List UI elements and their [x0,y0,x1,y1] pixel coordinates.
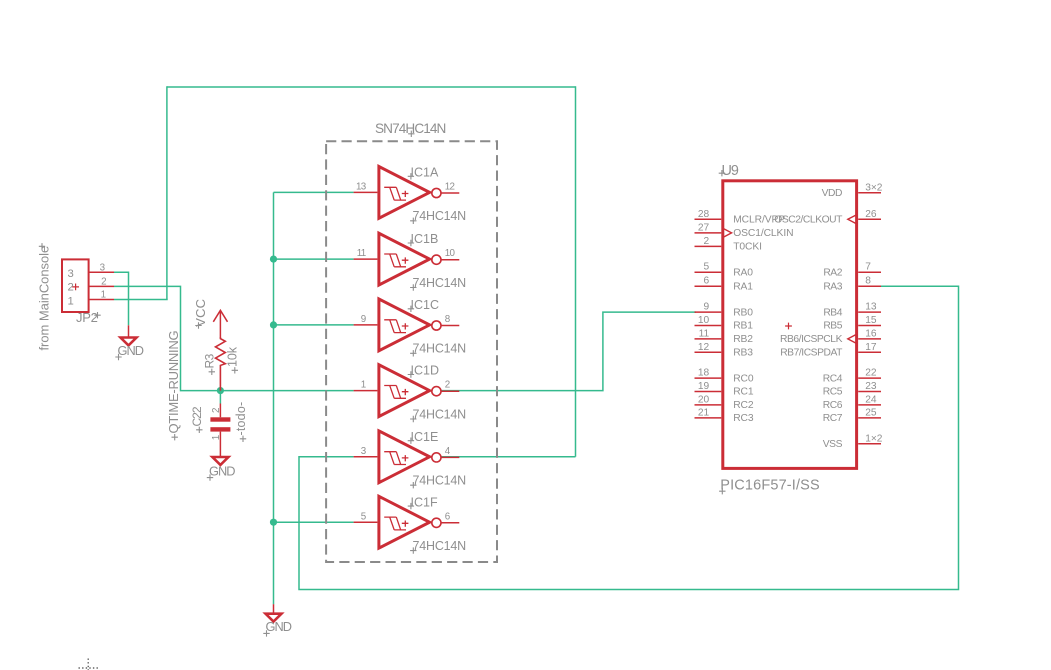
clock mark OSC1/CLKIN [723,228,732,237]
svg-text:VDD: VDD [822,188,842,199]
clock mark OSC2/CLKOUT [848,215,857,224]
op-amp (schmitt inverter) IC1B [354,233,460,285]
svg-text:RC3: RC3 [733,413,754,424]
wire IC1E input from U9 RA3 [299,286,959,589]
svg-text:RC5: RC5 [823,387,843,398]
svg-text:22: 22 [865,368,877,379]
pin U9 RC5 (pin 23) right [823,381,881,398]
pin U9 RC4 (pin 22) right [823,368,881,385]
svg-text:1: 1 [361,380,366,391]
pin U9 RA1 (pin 6) left [695,276,754,293]
svg-text:74HC14N: 74HC14N [413,342,467,356]
ground GND (inverter inputs chain) [263,604,291,636]
label IC1D [408,364,439,378]
svg-text:GND: GND [266,619,292,634]
svg-text:74HC14N: 74HC14N [413,407,467,421]
svg-text:RC7: RC7 [823,413,843,424]
svg-text:OSC1/CLKIN: OSC1/CLKIN [733,228,793,239]
pin U9 OSC2/CLKOUT (pin 26) right [774,209,881,226]
svg-text:RA2: RA2 [823,267,842,278]
svg-text:15: 15 [865,315,877,326]
svg-text:74HC14N: 74HC14N [413,276,467,290]
svg-text:RC6: RC6 [823,400,843,411]
svg-text:1: 1 [211,435,222,440]
svg-text:IC1C: IC1C [411,298,439,312]
svg-text:1×2: 1×2 [865,433,883,444]
pin U9 RB1 (pin 10) left [695,315,754,332]
svg-text:2: 2 [211,408,222,413]
wire net JP2.1 to IC1E output: top horizontal [167,86,576,88]
svg-text:IC1D: IC1D [411,364,439,378]
svg-text:18: 18 [698,368,710,379]
pin U9 RA0 (pin 5) left [695,262,754,279]
wire R3/C22 junction segment [219,391,221,404]
pin U9 T0CKI (pin 2) left [695,236,762,253]
wire IC1C input [274,324,354,326]
svg-text:RB7/ICSPDAT: RB7/ICSPDAT [780,348,843,359]
svg-text:74HC14N: 74HC14N [413,539,467,553]
label IC1A [408,166,439,180]
svg-text:RA1: RA1 [733,281,753,292]
svg-text:10: 10 [445,248,456,259]
pin U9 RB7/ICSPDAT (pin 17) right [780,342,881,359]
value 74HC14N (IC1A) [410,209,466,224]
svg-text:RC4: RC4 [823,373,843,384]
junction dot QTIME-RUNNING / R3 / C22 [217,387,224,394]
value -todo- [234,402,248,442]
pin U9 RC3 (pin 21) left [695,407,754,424]
net label QTIME-RUNNING [166,330,181,440]
op-amp (schmitt inverter) IC1D [354,365,460,417]
value 74HC14N (IC1B) [410,276,466,291]
wire IC1D output to U9 RB0 [441,312,696,391]
svg-text:5: 5 [704,262,710,273]
svg-text:IC1F: IC1F [411,495,438,509]
value 74HC14N (IC1C) [410,342,466,357]
svg-text:OSC2/CLKOUT: OSC2/CLKOUT [774,215,843,226]
svg-text:RC0: RC0 [733,373,754,384]
svg-text:12: 12 [698,342,710,353]
op-amp (schmitt inverter) IC1A [354,167,460,219]
svg-text:7: 7 [865,262,871,273]
svg-text:GND: GND [209,463,235,478]
svg-text:20: 20 [698,394,710,405]
IC U9 PIC16F57 body [723,181,857,469]
svg-text:IC1A: IC1A [411,166,439,180]
pin U9 RA3 (pin 8) right [823,276,881,293]
svg-text:27: 27 [698,222,710,233]
svg-text:IC1B: IC1B [411,232,439,246]
svg-text:GND: GND [118,343,144,358]
value 10k [226,346,240,373]
svg-text:PIC16F57-I/SS: PIC16F57-I/SS [720,478,819,494]
svg-text:2: 2 [445,380,450,391]
svg-text:24: 24 [865,394,877,405]
svg-text:from MainConsole: from MainConsole [37,246,52,351]
svg-text:3: 3 [100,262,106,273]
value 74HC14N (IC1F) [410,539,466,554]
svg-text:RB1: RB1 [733,321,753,332]
label IC1E [408,430,439,444]
label IC1B [408,232,439,246]
origin cross U9 [785,323,792,330]
svg-text:-todo-: -todo- [234,402,248,436]
label from MainConsole [37,243,52,350]
svg-text:9: 9 [704,302,710,313]
svg-text:IC1E: IC1E [411,430,439,444]
pin U9 RB5 (pin 15) right [823,315,881,332]
junction dot IC1B input [270,256,277,263]
wire IC1B input [274,258,354,260]
pin U9 OSC1/CLKIN (pin 27) left [695,222,794,239]
wire IC1A input [274,191,354,193]
svg-text:23: 23 [865,381,877,392]
svg-text:C22: C22 [190,406,204,426]
svg-text:74HC14N: 74HC14N [413,209,467,223]
ground GND (C22) [207,457,235,481]
svg-text:VSS: VSS [823,439,843,450]
svg-text:RB0: RB0 [733,307,753,318]
svg-text:2: 2 [68,282,74,294]
svg-text:3×2: 3×2 [865,182,883,193]
pin U9 MCLR/VPP (pin 28) left [695,209,786,226]
svg-text:RA0: RA0 [733,267,753,278]
power VCC [193,299,227,338]
svg-text:VCC: VCC [193,299,208,327]
svg-text:21: 21 [698,407,710,418]
clock mark RB6/ICSPCLK [848,334,857,343]
svg-text:3: 3 [68,268,74,280]
svg-text:1: 1 [68,295,74,307]
svg-text:10k: 10k [226,346,240,367]
wire net QTIME-RUNNING: JP2 pin 2 to IC1D input [114,286,354,390]
pin U9 RB6/ICSPCLK (pin 16) right [780,328,881,345]
pin U9 RC0 (pin 18) left [695,368,754,385]
wire right vertical down to IC1E output [575,86,577,457]
value 74HC14N (IC1E) [410,474,466,489]
junction dot IC1F input [270,519,277,526]
ground GND (JP2 pin3) [115,325,143,360]
label SN74HC14N [375,121,446,137]
pin U9 RC6 (pin 24) right [823,394,881,411]
pin U9 VSS (pin 1×2) right [823,433,883,450]
wire JP2 pin 1 [114,299,168,301]
pin U9 RA2 (pin 7) right [823,262,881,279]
capacitor C22 [210,404,230,457]
junction dot IC1C input [270,321,277,328]
label IC1F [408,495,438,509]
svg-text:RC2: RC2 [733,400,754,411]
svg-text:1: 1 [101,290,106,301]
svg-text:6: 6 [704,276,710,287]
pin U9 RC1 (pin 19) left [695,381,754,398]
pin U9 RC2 (pin 20) left [695,394,754,411]
svg-text:19: 19 [698,381,710,392]
svg-text:RC1: RC1 [733,387,754,398]
op-amp (schmitt inverter) IC1F [354,496,460,548]
svg-text:26: 26 [865,209,877,220]
label IC1C [408,298,439,312]
svg-text:28: 28 [698,209,710,220]
svg-text:9: 9 [361,314,366,325]
wire IC1E output horizontal [441,456,576,458]
svg-text:2: 2 [704,236,710,247]
pin U9 RB0 (pin 9) left [695,302,754,319]
connector JP2 [62,259,114,312]
svg-text:RB3: RB3 [733,348,753,359]
svg-text:RB4: RB4 [823,307,842,318]
op-amp (schmitt inverter) IC1E [354,431,460,483]
wire left vertical to JP2 pin 1 [166,86,168,299]
value PIC16F57-I/SS [719,478,820,495]
svg-text:10: 10 [698,315,710,326]
svg-text:JP2: JP2 [76,310,98,325]
label R3 [203,353,217,375]
svg-text:2: 2 [101,277,106,288]
svg-text:13: 13 [356,182,367,193]
IC1 package outline SN74HC14N (dashed) [326,141,497,562]
value 74HC14N (IC1D) [410,407,466,422]
svg-text:13: 13 [865,302,877,313]
label U9 [719,163,739,179]
svg-text:16: 16 [865,328,877,339]
wire IC1F input [274,521,354,523]
svg-text:U9: U9 [722,163,739,179]
svg-text:11: 11 [357,248,366,259]
svg-text:RB6/ICSPCLK: RB6/ICSPCLK [780,334,843,345]
label C22 [190,406,204,433]
svg-text:QTIME-RUNNING: QTIME-RUNNING [166,330,181,433]
op-amp (schmitt inverter) IC1C [354,299,460,351]
sheet origin cross (dotted) [79,659,99,670]
label JP2 [76,310,101,325]
pin U9 RB3 (pin 12) left [695,342,754,359]
svg-text:8: 8 [865,276,871,287]
resistor R3 10k [216,337,226,391]
svg-text:T0CKI: T0CKI [733,242,762,253]
svg-text:R3: R3 [203,353,217,368]
svg-text:11: 11 [699,328,710,339]
svg-text:RB2: RB2 [733,334,753,345]
wire GND chain vertical IC1A/B/C/F inputs [273,192,275,604]
svg-text:RB5: RB5 [823,321,842,332]
svg-text:12: 12 [445,182,455,193]
svg-text:74HC14N: 74HC14N [413,474,467,488]
pin U9 VDD (pin 3×2) right [822,182,883,199]
svg-text:17: 17 [865,342,877,353]
pin U9 RC7 (pin 25) right [823,407,881,424]
pin U9 RB4 (pin 13) right [823,302,881,319]
pin U9 RB2 (pin 11) left [695,328,754,345]
svg-text:RA3: RA3 [823,281,842,292]
wire JP2 pin 3 to GND [114,272,129,325]
svg-text:25: 25 [865,407,877,418]
